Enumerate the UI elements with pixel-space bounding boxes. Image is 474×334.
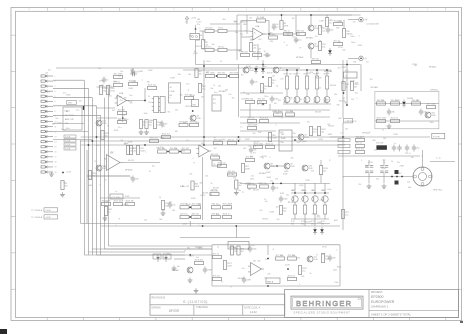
svg-text:12: 12 bbox=[55, 131, 57, 133]
svg-text:33k: 33k bbox=[103, 91, 106, 93]
svg-text:1k5: 1k5 bbox=[88, 178, 91, 180]
resistor R132 bbox=[319, 166, 327, 175]
svg-text:10k: 10k bbox=[218, 86, 221, 88]
svg-text:10u: 10u bbox=[274, 103, 277, 105]
wire drv vert b bbox=[269, 104, 271, 110]
junction grid a bbox=[189, 206, 191, 208]
resistor R23 bbox=[118, 109, 127, 114]
resistor R92 bbox=[241, 51, 250, 56]
svg-text:220R: 220R bbox=[190, 95, 195, 97]
svg-text:R86 100n: R86 100n bbox=[253, 51, 261, 53]
svg-text:C945: C945 bbox=[270, 166, 275, 168]
junction drv rail bbox=[262, 64, 264, 66]
svg-text:C4 100u/100V: C4 100u/100V bbox=[366, 24, 379, 26]
resistor R56 bbox=[286, 111, 295, 116]
svg-text:R: R bbox=[286, 45, 288, 47]
svg-text:R96 10k: R96 10k bbox=[246, 98, 253, 100]
svg-text:4k7: 4k7 bbox=[169, 202, 172, 204]
resistor R60 bbox=[248, 183, 257, 188]
capacitor C20 bbox=[248, 246, 257, 253]
svg-text:1k: 1k bbox=[276, 85, 278, 87]
resistor R43 bbox=[180, 204, 189, 209]
resistor R30 bbox=[129, 146, 136, 155]
capacitor C10 bbox=[131, 176, 139, 183]
junction dot 19 bbox=[202, 225, 204, 227]
label +15V near connector bbox=[66, 172, 72, 174]
transistor Q2 bbox=[308, 43, 319, 49]
svg-text:470R: 470R bbox=[357, 137, 362, 139]
junction dot 12 bbox=[304, 192, 306, 194]
svg-text:1k: 1k bbox=[346, 87, 348, 89]
resistor R1 bbox=[205, 27, 214, 32]
svg-text:C: C bbox=[245, 30, 247, 32]
svg-text:100R: 100R bbox=[189, 255, 194, 257]
junction dot 4 bbox=[238, 136, 240, 138]
resistor R42 bbox=[191, 181, 200, 190]
wire r3 top bbox=[202, 31, 204, 40]
svg-text:220R: 220R bbox=[66, 94, 71, 96]
svg-text:CH.A: CH.A bbox=[170, 90, 175, 93]
junction fan b bbox=[287, 268, 289, 270]
resistor R103 bbox=[258, 98, 267, 103]
svg-text:4k7: 4k7 bbox=[330, 29, 333, 31]
svg-text:220R: 220R bbox=[186, 204, 191, 206]
svg-text:BD139: BD139 bbox=[328, 125, 334, 127]
svg-text:C: C bbox=[255, 55, 257, 57]
svg-text:100R: 100R bbox=[278, 111, 283, 113]
svg-text:1k5: 1k5 bbox=[259, 210, 262, 212]
terminal +V bbox=[359, 18, 368, 22]
svg-text:1k5: 1k5 bbox=[232, 97, 235, 99]
cap cluster B bbox=[380, 160, 388, 183]
wire long 237.5 bbox=[180, 237, 250, 239]
junction dot 2 bbox=[88, 144, 90, 146]
wire xlr to r1 bbox=[200, 30, 206, 32]
svg-text:R41 47u: R41 47u bbox=[228, 171, 235, 173]
junction feedback bbox=[268, 33, 270, 35]
cl label box bbox=[212, 160, 221, 166]
ground fan left bbox=[172, 266, 177, 271]
label above speakon bbox=[405, 153, 412, 155]
resistor R32 bbox=[102, 200, 111, 205]
svg-text:10k: 10k bbox=[196, 122, 199, 124]
label C4 100u bbox=[366, 24, 379, 26]
resistor R108 bbox=[248, 124, 258, 129]
svg-text:9: 9 bbox=[55, 116, 56, 118]
junction dot 18 bbox=[346, 64, 348, 66]
svg-text:BD139: BD139 bbox=[315, 112, 321, 114]
junction drv bbox=[262, 76, 264, 78]
resistor R127 bbox=[356, 148, 365, 153]
input module box bbox=[169, 83, 181, 103]
terminal -V bbox=[359, 56, 367, 60]
svg-text:10k: 10k bbox=[120, 71, 123, 73]
svg-text:470R: 470R bbox=[283, 173, 288, 175]
svg-text:56k: 56k bbox=[162, 210, 165, 212]
svg-text:33k: 33k bbox=[175, 131, 178, 133]
svg-text:C: C bbox=[359, 36, 361, 38]
svg-text:1k5: 1k5 bbox=[253, 146, 256, 148]
svg-text:LIM: LIM bbox=[243, 24, 247, 26]
resistor R131 bbox=[298, 266, 306, 275]
svg-text:1n: 1n bbox=[304, 34, 306, 36]
wire rail 66 bbox=[56, 67, 300, 69]
junction q8 bbox=[276, 165, 278, 167]
svg-text:47u: 47u bbox=[199, 74, 202, 76]
svg-text:56k: 56k bbox=[199, 35, 202, 37]
svg-text:10k: 10k bbox=[246, 94, 249, 96]
wire out to right bbox=[280, 33, 300, 35]
svg-text:6k8: 6k8 bbox=[408, 187, 411, 189]
wire u2a out bbox=[127, 100, 146, 102]
svg-text:22k: 22k bbox=[174, 148, 177, 150]
svg-text:R38 100n: R38 100n bbox=[214, 139, 222, 141]
svg-text:100n: 100n bbox=[334, 282, 338, 284]
svg-text:1k: 1k bbox=[63, 182, 65, 184]
wire to speakon bbox=[343, 176, 413, 178]
wire x1227 drop bbox=[122, 106, 124, 122]
wire col drop a bbox=[294, 183, 296, 193]
wire x190 drop bbox=[189, 221, 191, 226]
svg-text:47u: 47u bbox=[186, 140, 189, 142]
svg-text:2k2: 2k2 bbox=[248, 189, 251, 191]
junction spk a bbox=[391, 176, 393, 178]
svg-text:1k: 1k bbox=[185, 22, 187, 24]
junction dot 7 bbox=[296, 69, 298, 71]
svg-text:4R7: 4R7 bbox=[334, 220, 339, 222]
svg-text:1n: 1n bbox=[168, 97, 170, 99]
svg-text:MPSA42: MPSA42 bbox=[371, 86, 378, 89]
wire fan box right bbox=[339, 245, 341, 286]
svg-text:10k: 10k bbox=[292, 255, 295, 257]
svg-text:100R: 100R bbox=[88, 185, 93, 187]
svg-text:470R: 470R bbox=[128, 142, 133, 144]
transistor Q7 bbox=[298, 134, 309, 140]
label CL 1.4 bbox=[213, 156, 220, 158]
resistor R65 bbox=[342, 82, 349, 91]
svg-text:56k: 56k bbox=[234, 21, 237, 23]
label prot bbox=[407, 98, 414, 100]
svg-text:4k7: 4k7 bbox=[354, 87, 357, 89]
resistor R14 bbox=[342, 29, 349, 38]
wire row123 mid bbox=[240, 122, 300, 124]
svg-text:33k: 33k bbox=[290, 111, 293, 113]
svg-text:7: 7 bbox=[210, 9, 211, 11]
speakon connector X2 bbox=[413, 150, 455, 186]
svg-text:C: C bbox=[99, 184, 101, 186]
wire q emitter bbox=[310, 49, 312, 58]
resistor R95 bbox=[325, 18, 332, 27]
wire vert 204 bbox=[203, 60, 205, 145]
junction rail145 a bbox=[144, 144, 146, 146]
svg-text:1k: 1k bbox=[330, 71, 332, 73]
svg-text:EP2500: EP2500 bbox=[371, 295, 384, 299]
svg-text:R99 1k: R99 1k bbox=[248, 117, 254, 119]
svg-text:1n: 1n bbox=[382, 129, 384, 131]
junction top rail b bbox=[310, 14, 312, 16]
svg-text:U5: U5 bbox=[253, 261, 257, 263]
svg-text:22k: 22k bbox=[248, 145, 251, 147]
svg-text:BD139: BD139 bbox=[316, 78, 322, 80]
svg-text:10: 10 bbox=[55, 121, 57, 123]
capacitor C19 bbox=[405, 145, 409, 152]
resistor R133 bbox=[254, 143, 264, 148]
resistor R111 bbox=[106, 86, 115, 95]
resistor R61 bbox=[260, 183, 269, 188]
resistor R10 bbox=[318, 26, 325, 35]
wire u3 out bbox=[122, 162, 160, 164]
svg-text:DRAWN: DRAWN bbox=[152, 306, 161, 309]
svg-text:1k: 1k bbox=[310, 273, 312, 275]
svg-text:5W: 5W bbox=[301, 223, 304, 225]
svg-text:22k: 22k bbox=[201, 97, 204, 99]
TO CH.B label box 1 bbox=[31, 208, 57, 212]
svg-text:47u: 47u bbox=[189, 35, 192, 37]
svg-text:100R: 100R bbox=[195, 186, 200, 188]
svg-text:1k: 1k bbox=[243, 92, 245, 94]
svg-text:100R: 100R bbox=[139, 71, 144, 73]
svg-text:5W: 5W bbox=[291, 223, 294, 225]
svg-text:2n2: 2n2 bbox=[196, 257, 199, 259]
diode D5 bbox=[320, 227, 324, 235]
ground prot bbox=[387, 124, 392, 129]
svg-text:R72 5W: R72 5W bbox=[376, 143, 383, 145]
capacitor C3 bbox=[326, 27, 334, 34]
svg-text:220R: 220R bbox=[266, 172, 271, 174]
resistor R68 bbox=[412, 100, 421, 105]
svg-text:10u: 10u bbox=[217, 204, 220, 206]
scattered value annotations bbox=[45, 18, 438, 289]
svg-text:C: C bbox=[299, 283, 301, 285]
svg-text:CL: CL bbox=[213, 164, 217, 166]
svg-text:(VARNUM) 1: (VARNUM) 1 bbox=[371, 304, 389, 308]
wire to -V terminal bbox=[348, 57, 358, 59]
svg-text:100R: 100R bbox=[280, 193, 285, 195]
svg-text:470R: 470R bbox=[262, 156, 267, 158]
wire drv vert a bbox=[249, 104, 251, 117]
ground fan mid bbox=[188, 278, 193, 283]
label X out bbox=[355, 121, 357, 123]
svg-text:R93 470R: R93 470R bbox=[230, 72, 239, 74]
svg-text:FAN A: FAN A bbox=[267, 280, 274, 283]
junction dot 17 bbox=[342, 136, 344, 138]
svg-text:2k2: 2k2 bbox=[374, 149, 377, 151]
svg-text:C945: C945 bbox=[313, 259, 318, 261]
svg-text:100R: 100R bbox=[269, 212, 274, 214]
svg-text:BD139: BD139 bbox=[330, 85, 336, 87]
svg-text:33k: 33k bbox=[135, 178, 138, 180]
resistor R4 bbox=[205, 46, 214, 51]
connector pin label boxes bbox=[64, 135, 76, 151]
wire col drop b bbox=[304, 183, 306, 193]
svg-text:22k: 22k bbox=[253, 48, 256, 50]
svg-text:G (11/07/03): G (11/07/03) bbox=[183, 300, 208, 304]
svg-text:T.OUT: T.OUT bbox=[65, 149, 71, 151]
svg-text:10k: 10k bbox=[275, 187, 278, 189]
svg-text:6k8: 6k8 bbox=[336, 27, 339, 29]
resistor R8 bbox=[269, 34, 278, 39]
svg-text:1k5: 1k5 bbox=[275, 24, 278, 26]
wire y87 link bbox=[97, 86, 114, 88]
svg-text:R128 33k: R128 33k bbox=[195, 259, 203, 261]
svg-text:MPSA42: MPSA42 bbox=[306, 37, 313, 40]
wire rail 183 bbox=[240, 182, 330, 184]
wire y131 row bbox=[240, 130, 276, 132]
label C1 bbox=[196, 22, 201, 24]
svg-text:100n: 100n bbox=[312, 214, 316, 216]
svg-text:4k7: 4k7 bbox=[227, 205, 230, 207]
svg-text:1k: 1k bbox=[264, 51, 266, 53]
ground above revision block bbox=[194, 288, 199, 293]
svg-text:100R: 100R bbox=[128, 88, 133, 90]
svg-text:1n: 1n bbox=[286, 73, 288, 75]
resistor R45 bbox=[211, 204, 220, 209]
svg-text:100n: 100n bbox=[283, 198, 287, 200]
capacitor C22 bbox=[203, 267, 213, 274]
resistor R136 bbox=[341, 210, 348, 219]
svg-text:BD139: BD139 bbox=[248, 123, 254, 125]
svg-text:56k: 56k bbox=[342, 49, 345, 51]
vertical wire bus bbox=[84, 80, 100, 255]
svg-text:10u: 10u bbox=[286, 195, 289, 197]
svg-text:47u: 47u bbox=[345, 70, 348, 72]
svg-text:BEHRINGER: BEHRINGER bbox=[296, 299, 352, 308]
svg-text:MPSA42: MPSA42 bbox=[195, 246, 202, 249]
svg-text:R: R bbox=[107, 125, 109, 127]
svg-text:220R: 220R bbox=[306, 73, 311, 75]
svg-text:1k: 1k bbox=[213, 85, 215, 87]
svg-text:TO CH.B A: TO CH.B A bbox=[31, 209, 42, 212]
svg-text:56k: 56k bbox=[209, 194, 212, 196]
power resistor black bbox=[376, 145, 387, 150]
svg-text:4k7: 4k7 bbox=[278, 100, 281, 102]
wire x145 drop bbox=[144, 88, 146, 101]
transistor Q16 bottom bbox=[187, 267, 193, 273]
svg-text:C945: C945 bbox=[314, 28, 319, 30]
ground below r33 bbox=[103, 216, 108, 221]
wire rail 117 bbox=[240, 116, 330, 118]
wire opamp minus bbox=[240, 37, 242, 50]
resistor R96 bbox=[312, 58, 321, 63]
svg-text:470R: 470R bbox=[322, 247, 327, 249]
wire feedback down bbox=[268, 21, 270, 35]
svg-text:47u: 47u bbox=[120, 100, 123, 102]
svg-text:33k: 33k bbox=[336, 105, 339, 107]
svg-text:33k: 33k bbox=[289, 73, 292, 75]
svg-text:1k: 1k bbox=[61, 129, 63, 131]
svg-text:2k2: 2k2 bbox=[239, 185, 242, 187]
svg-text:470R: 470R bbox=[399, 165, 404, 167]
svg-text:Q6: Q6 bbox=[279, 68, 282, 70]
svg-text:33k: 33k bbox=[353, 61, 356, 63]
svg-text:R6 2k2: R6 2k2 bbox=[218, 46, 224, 48]
svg-text:Q13: Q13 bbox=[102, 121, 106, 123]
wire vert 238 mid bbox=[238, 65, 240, 118]
svg-text:100R: 100R bbox=[328, 134, 333, 136]
svg-text:1n: 1n bbox=[115, 191, 117, 193]
resistor R36 bbox=[182, 148, 191, 153]
svg-text:22k: 22k bbox=[162, 126, 165, 128]
resistor R6 bbox=[218, 46, 227, 51]
wire feedback right bbox=[266, 20, 270, 22]
resistor R84 bbox=[276, 255, 285, 260]
svg-text:Q11: Q11 bbox=[313, 257, 316, 259]
svg-text:2: 2 bbox=[55, 81, 56, 83]
svg-text:2k2: 2k2 bbox=[276, 207, 279, 209]
resistor R102 bbox=[246, 98, 255, 103]
transistor Q1 bbox=[308, 25, 319, 31]
svg-text:2n2: 2n2 bbox=[258, 39, 261, 41]
svg-text:C: C bbox=[193, 158, 195, 160]
wire y198 link bbox=[100, 197, 140, 199]
svg-text:2: 2 bbox=[391, 9, 392, 11]
wire bus link b bbox=[109, 245, 213, 247]
resistor R41 bbox=[235, 180, 242, 189]
svg-text:10u: 10u bbox=[355, 93, 358, 95]
svg-text:47u: 47u bbox=[63, 93, 66, 95]
svg-text:17: 17 bbox=[55, 157, 57, 159]
svg-text:BD139: BD139 bbox=[196, 46, 202, 48]
svg-text:MPSA42: MPSA42 bbox=[228, 173, 235, 176]
svg-text:4k7: 4k7 bbox=[383, 138, 386, 140]
label speakon net bbox=[436, 158, 442, 160]
svg-text:220R: 220R bbox=[114, 130, 119, 132]
svg-text:470R: 470R bbox=[284, 26, 289, 28]
ground cap cluster B bbox=[382, 184, 387, 189]
svg-text:2k2: 2k2 bbox=[133, 151, 136, 153]
resistor R80 bbox=[230, 246, 237, 255]
svg-text:1k: 1k bbox=[391, 161, 393, 163]
wire fan mid bbox=[267, 245, 269, 255]
svg-text:10u: 10u bbox=[376, 178, 379, 180]
svg-text:100n: 100n bbox=[160, 137, 164, 139]
svg-text:47u: 47u bbox=[307, 122, 310, 124]
svg-text:R123 1k: R123 1k bbox=[391, 117, 398, 119]
svg-text:22k: 22k bbox=[240, 34, 243, 36]
svg-text:1n: 1n bbox=[240, 21, 242, 23]
ground below r41 bbox=[234, 190, 239, 195]
op-amp U2A bbox=[115, 92, 129, 106]
svg-text:R47 10u: R47 10u bbox=[180, 213, 187, 215]
svg-text:100R: 100R bbox=[195, 40, 200, 42]
svg-text:100R: 100R bbox=[324, 99, 329, 101]
svg-text:10u: 10u bbox=[261, 104, 264, 106]
junction y100 x145 bbox=[144, 100, 146, 102]
resistor R37 bbox=[214, 139, 223, 144]
svg-text:15: 15 bbox=[55, 147, 57, 149]
svg-text:470R: 470R bbox=[124, 204, 129, 206]
capacitor C30 bbox=[294, 37, 302, 44]
junction mute bbox=[192, 110, 194, 112]
diode D3 bbox=[261, 66, 265, 74]
svg-text:BD139: BD139 bbox=[339, 100, 345, 102]
svg-text:C945: C945 bbox=[249, 70, 254, 72]
svg-text:100n: 100n bbox=[262, 66, 266, 68]
resistor R135 bbox=[101, 131, 109, 140]
wire r3 down bbox=[202, 49, 204, 51]
svg-text:C: C bbox=[284, 42, 286, 44]
svg-text:10u: 10u bbox=[296, 73, 299, 75]
svg-text:22k: 22k bbox=[250, 40, 253, 42]
svg-text:33k: 33k bbox=[270, 41, 273, 43]
svg-text:470R: 470R bbox=[245, 169, 250, 171]
svg-text:C945: C945 bbox=[431, 115, 436, 117]
svg-text:R: R bbox=[194, 163, 196, 165]
wire long 226 bbox=[180, 225, 340, 227]
svg-text:K1: K1 bbox=[213, 99, 216, 101]
svg-text:R5 47u: R5 47u bbox=[205, 46, 211, 48]
protection box outline bbox=[375, 91, 439, 128]
